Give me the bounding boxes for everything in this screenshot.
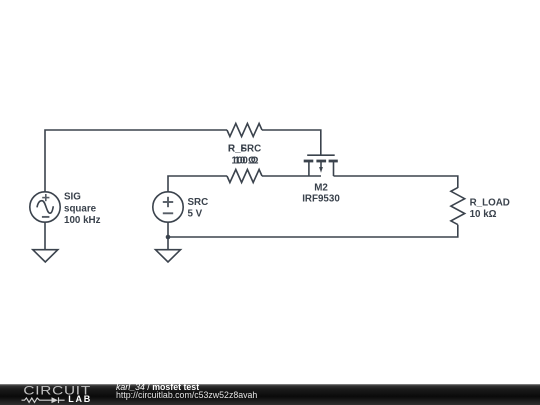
wire R_LOAD bottom rail: [168, 225, 458, 237]
svg-text:IRF9530: IRF9530: [302, 193, 340, 204]
SIG minus symbol: [42, 216, 50, 218]
wire SRC bottom: [167, 222, 169, 250]
node junction SRC bottom: [166, 235, 171, 240]
svg-text:SRC: SRC: [188, 197, 209, 208]
SRC plus symbol: [163, 197, 173, 214]
SRC minus symbol: [163, 212, 173, 214]
transistor M2 channel bars: [304, 160, 338, 163]
wire R_SRC to M2 source/body: [262, 175, 321, 177]
wire SIG bottom: [44, 222, 46, 250]
svg-text:SIG: SIG: [64, 192, 81, 203]
CircuitLab logo: [0, 384, 110, 405]
svg-text:10 kΩ: 10 kΩ: [470, 209, 497, 220]
resistor R_LOAD: [451, 188, 465, 225]
footer bar: [0, 384, 540, 405]
voltage source SRC: [153, 192, 183, 222]
wire M2 drain to R_LOAD: [334, 176, 458, 188]
svg-text:square: square: [64, 203, 97, 214]
resistor R_F (gate series): [227, 124, 262, 137]
transistor M2 body stem with arrow: [320, 162, 322, 168]
wire R_F to M2 gate: [262, 130, 321, 155]
transistor M2 drain stem: [333, 162, 335, 176]
source SIG sine glyph: [37, 201, 53, 214]
source SIG: [30, 192, 60, 222]
ground SRC: [156, 250, 181, 262]
svg-text:LAB: LAB: [68, 394, 92, 404]
svg-text:100 Ω: 100 Ω: [232, 156, 259, 167]
svg-text:M2: M2: [314, 182, 328, 193]
svg-text:R_LOAD: R_LOAD: [470, 197, 510, 208]
transistor M2 gate bar: [307, 154, 335, 156]
wire SRC top: [168, 176, 227, 192]
svg-text:R_SRC: R_SRC: [228, 144, 261, 155]
svg-text:5 V: 5 V: [188, 209, 203, 220]
ground SIG: [33, 250, 58, 262]
wire SIG top to gate node: [45, 130, 227, 192]
SIG plus symbol: [42, 194, 50, 217]
resistor R_SRC: [227, 170, 262, 183]
svg-text:100 kHz: 100 kHz: [64, 215, 101, 226]
transistor M2 body arrow: [319, 167, 323, 173]
transistor M2 source stem: [308, 162, 310, 176]
